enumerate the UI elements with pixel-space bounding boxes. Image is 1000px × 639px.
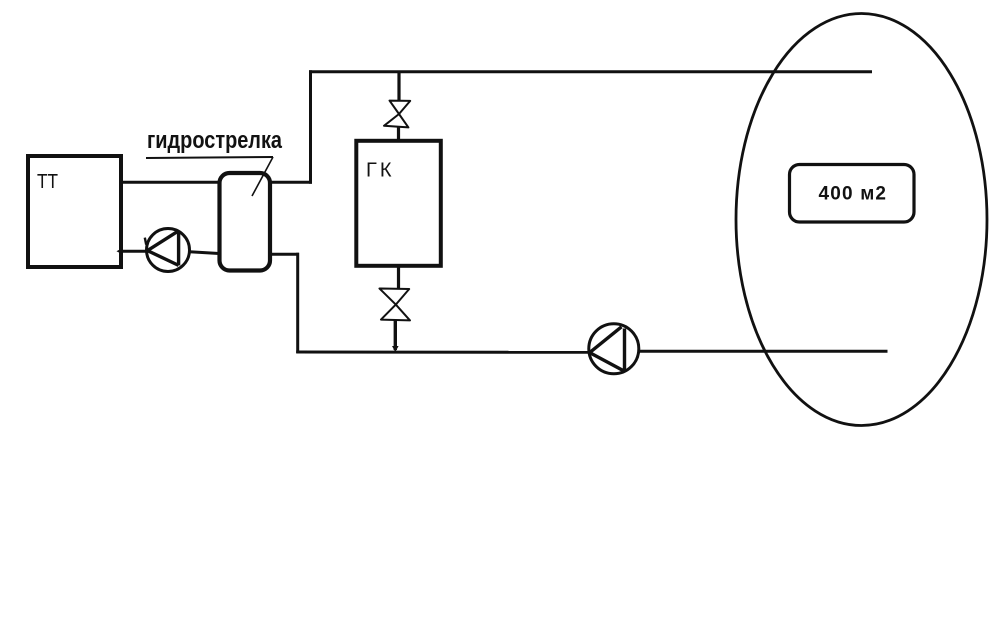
heated zone ellipse — [736, 14, 987, 426]
area box — [790, 165, 915, 223]
wire valve V1 lower stub — [397, 127, 400, 140]
riser wire up to supply main — [309, 70, 312, 184]
supply main wire (top pipe) — [309, 70, 872, 73]
return main wire (right of pump) — [639, 350, 888, 353]
wire valve V1 upper stub — [397, 73, 400, 101]
wire valve V2 lower stub — [394, 320, 397, 350]
boiler GK box — [356, 141, 441, 266]
wire TT to pump P1 (return) — [121, 250, 148, 253]
wire TT to separator (supply) — [121, 181, 219, 184]
boiler TT box — [28, 156, 121, 267]
svg-text:ГК: ГК — [366, 160, 392, 182]
valve V1 (top) — [384, 101, 410, 128]
svg-text:гидрострелка: гидрострелка — [147, 127, 283, 154]
wire separator to riser (top right) — [270, 181, 312, 184]
wire separator to downcomer (bottom right) — [270, 253, 299, 256]
wire pump P1 to separator — [190, 252, 220, 254]
hydraulic separator — [220, 173, 271, 271]
arrowhead at return main — [392, 346, 399, 352]
wire valve V2 upper stub — [397, 266, 400, 289]
arrowhead at TT return — [117, 248, 124, 255]
svg-text:400 м2: 400 м2 — [819, 184, 887, 205]
leader underline — [146, 157, 273, 158]
downcomer wire — [296, 253, 299, 353]
valve V2 (bottom) — [380, 289, 411, 321]
return main wire (bottom pipe, left of pump) — [296, 351, 589, 354]
svg-text:ТТ: ТТ — [37, 171, 58, 193]
pump P1 — [145, 229, 190, 272]
pump P2 — [589, 324, 639, 374]
leader diagonal line — [252, 157, 273, 196]
